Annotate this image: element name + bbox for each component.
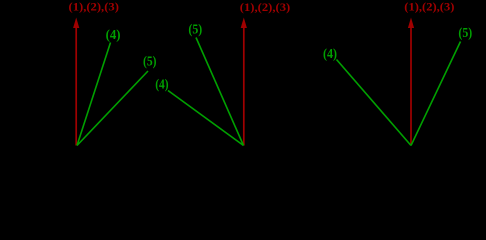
wire: red arrow shaft 2 xyxy=(243,26,245,146)
wire: green line fan2 to (5) xyxy=(196,38,244,146)
wire: green line fan1 to (4) xyxy=(77,43,111,146)
node arrowhead 1 xyxy=(73,18,79,29)
svg-text:(5): (5) xyxy=(188,21,202,36)
svg-text:(1),(2),(3): (1),(2),(3) xyxy=(69,0,120,13)
wire: green line fan3 to (4) xyxy=(337,60,412,146)
node arrowhead 3 xyxy=(408,18,414,29)
wire: green line fan3 to (5) xyxy=(411,42,461,146)
wire: green line fan1 to (5) xyxy=(77,71,148,146)
wire: red arrow shaft 3 xyxy=(410,26,412,146)
svg-text:(1),(2),(3): (1),(2),(3) xyxy=(404,0,454,13)
wire: green line fan2 to (4) xyxy=(168,91,244,146)
svg-text:(5): (5) xyxy=(458,25,472,40)
svg-text:(4): (4) xyxy=(106,27,121,42)
node arrowhead 2 xyxy=(241,18,247,29)
svg-text:(4): (4) xyxy=(323,46,337,61)
svg-text:(4): (4) xyxy=(155,76,168,91)
wire: red arrow shaft 1 xyxy=(75,26,77,146)
svg-text:(1),(2),(3): (1),(2),(3) xyxy=(240,1,291,14)
svg-text:(5): (5) xyxy=(143,53,157,68)
